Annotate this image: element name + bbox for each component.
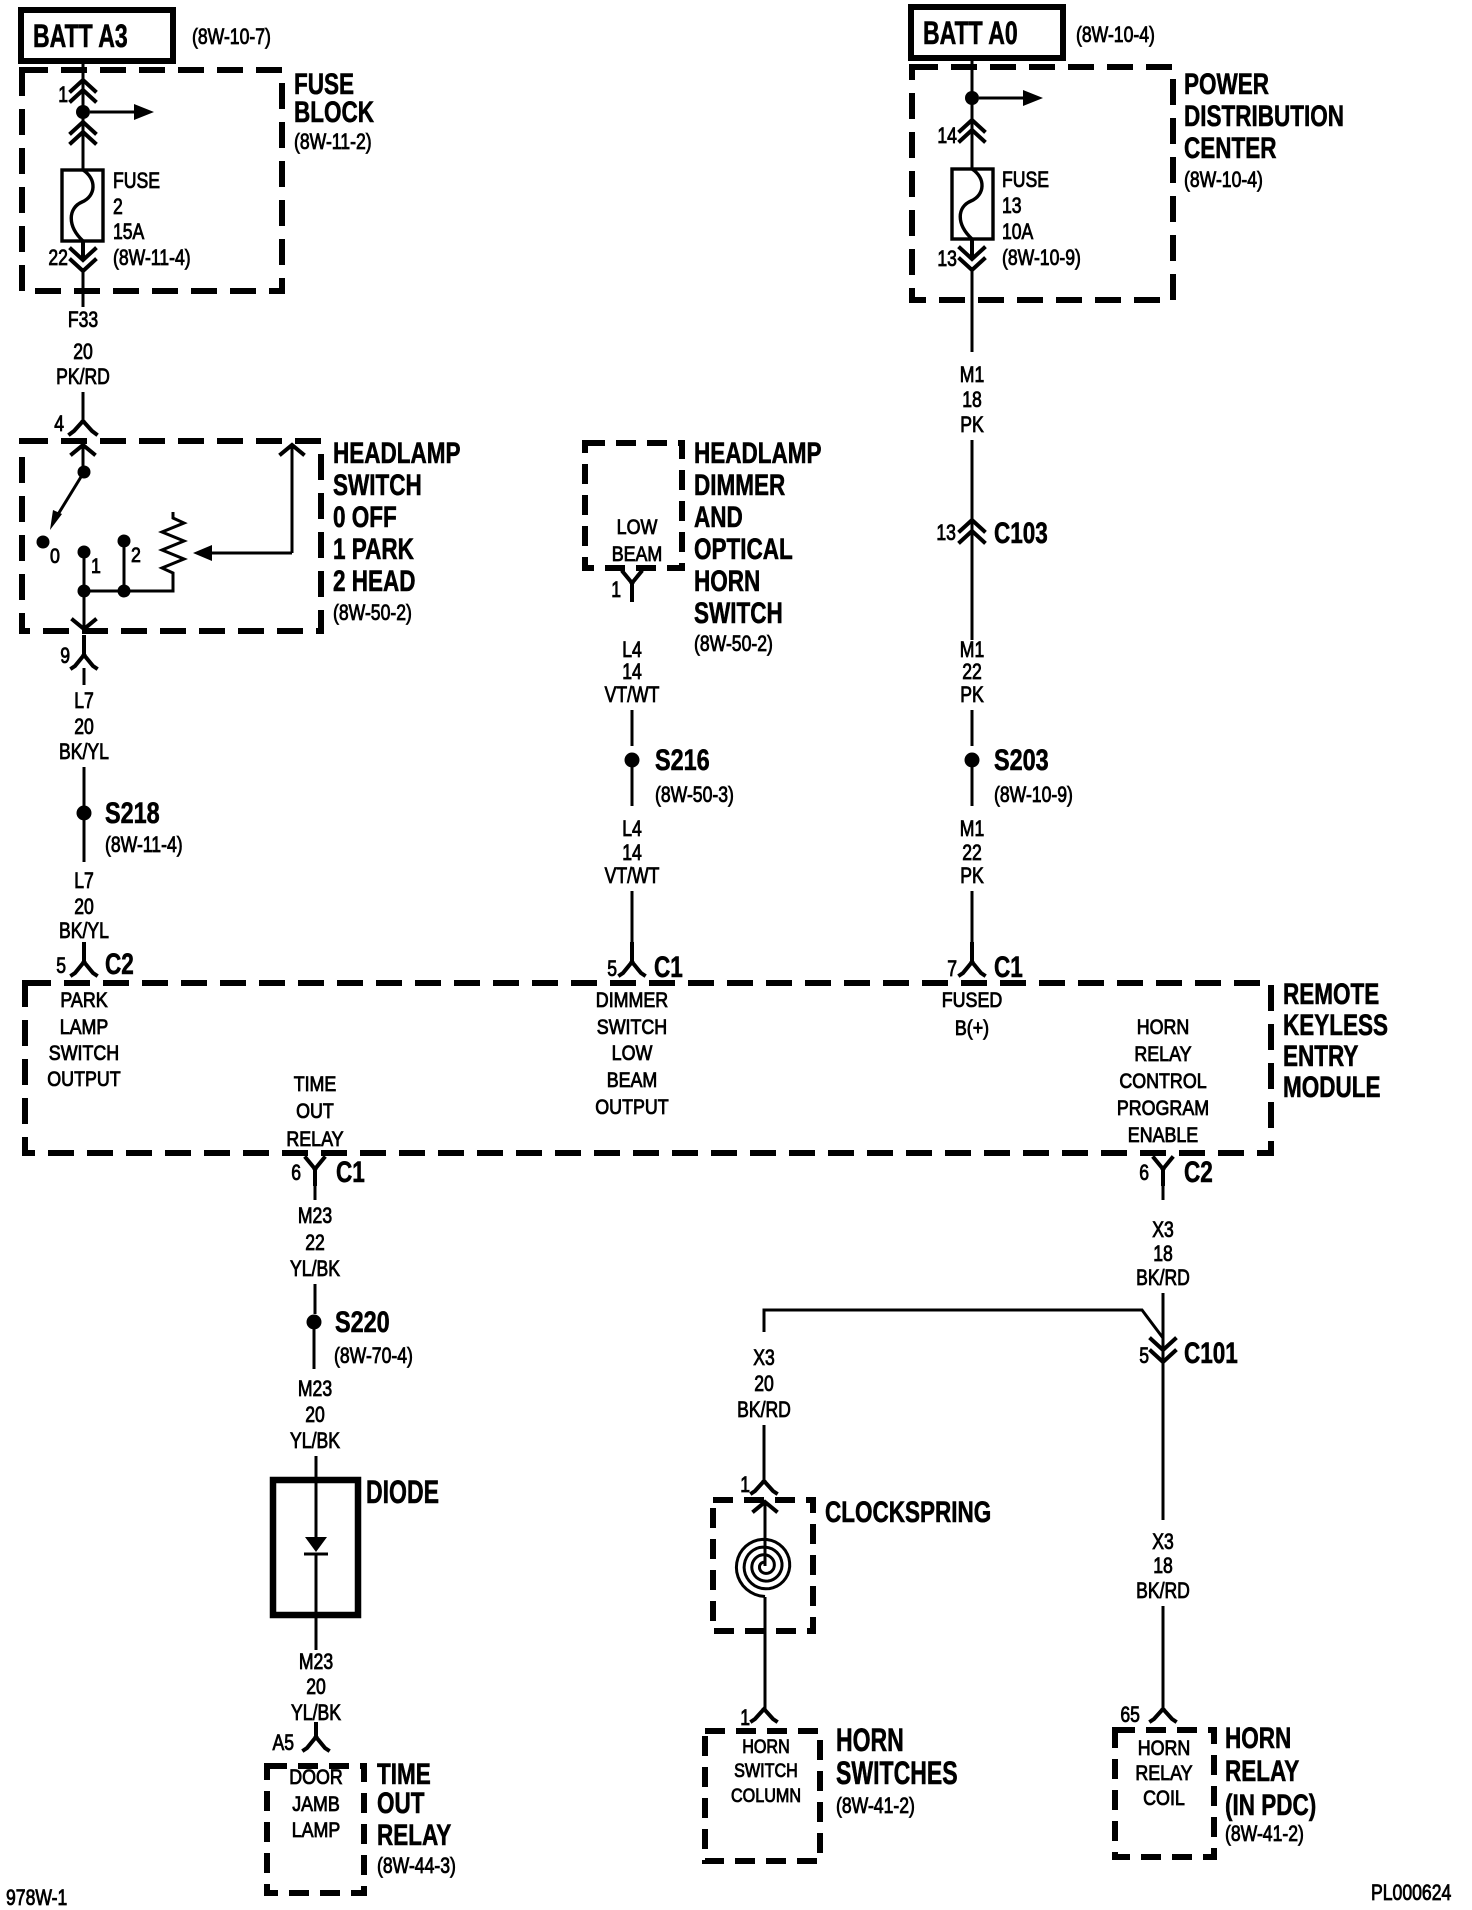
svg-text:(8W-10-4): (8W-10-4) — [1184, 167, 1263, 192]
svg-text:DIMMER: DIMMER — [694, 469, 785, 502]
svg-text:7: 7 — [947, 956, 957, 981]
svg-text:HORN: HORN — [694, 565, 760, 598]
svg-text:1: 1 — [740, 1472, 750, 1497]
svg-text:(8W-50-3): (8W-50-3) — [655, 782, 734, 807]
wire — [82, 392, 85, 421]
fuse F2 element — [62, 170, 103, 241]
power distribution center box — [912, 67, 1173, 300]
svg-text:9: 9 — [60, 643, 70, 668]
svg-text:B(+): B(+) — [955, 1017, 989, 1040]
svg-text:(8W-50-2): (8W-50-2) — [333, 600, 412, 625]
switch common node — [78, 466, 91, 479]
svg-text:PK: PK — [960, 863, 984, 888]
wire fuse block to headlamp switch — [82, 268, 85, 307]
connector entry chevron — [72, 445, 94, 454]
svg-text:OUT: OUT — [377, 1787, 425, 1820]
fuse block FUSE BLOCK — [22, 70, 282, 291]
svg-text:CLOCKSPRING: CLOCKSPRING — [825, 1496, 991, 1529]
svg-text:COLUMN: COLUMN — [731, 1786, 801, 1807]
low beam box — [585, 443, 682, 568]
svg-text:C1: C1 — [654, 951, 683, 984]
svg-text:M1: M1 — [960, 816, 985, 841]
svg-text:OPTICAL: OPTICAL — [694, 533, 793, 566]
contact 0 — [37, 536, 50, 549]
svg-text:BK/YL: BK/YL — [59, 918, 109, 943]
svg-text:6: 6 — [291, 1160, 301, 1185]
svg-text:(8W-11-2): (8W-11-2) — [294, 129, 372, 154]
svg-text:22: 22 — [48, 245, 68, 270]
svg-text:TIME: TIME — [294, 1073, 337, 1096]
contact 2 — [118, 535, 131, 548]
svg-text:SWITCH: SWITCH — [734, 1761, 798, 1782]
node junction with arrow — [965, 91, 979, 105]
svg-text:(8W-10-9): (8W-10-9) — [994, 782, 1073, 807]
svg-text:0: 0 — [50, 545, 60, 568]
svg-text:SWITCH: SWITCH — [597, 1016, 667, 1039]
svg-text:18: 18 — [1153, 1553, 1173, 1578]
svg-text:BEAM: BEAM — [607, 1069, 658, 1092]
svg-text:15A: 15A — [113, 219, 145, 244]
svg-text:CENTER: CENTER — [1184, 132, 1277, 165]
svg-text:HORN: HORN — [836, 1722, 904, 1758]
node junction with arrow — [76, 105, 90, 119]
svg-text:BK/RD: BK/RD — [1136, 1265, 1190, 1290]
clockspring coil spiral — [736, 1539, 789, 1596]
headlamp switch box — [22, 441, 321, 631]
svg-text:LOW: LOW — [617, 516, 658, 539]
rheostat resistor — [162, 512, 184, 581]
diode D1 — [273, 1480, 358, 1615]
svg-text:1: 1 — [58, 82, 68, 107]
svg-text:M23: M23 — [298, 1376, 332, 1401]
svg-text:YL/BK: YL/BK — [290, 1428, 340, 1453]
svg-text:1: 1 — [740, 1705, 750, 1730]
svg-text:L4: L4 — [622, 816, 642, 841]
svg-text:KEYLESS: KEYLESS — [1283, 1009, 1388, 1042]
svg-text:X3: X3 — [1152, 1529, 1174, 1554]
svg-text:5: 5 — [1139, 1343, 1149, 1368]
fuse 13 element — [952, 169, 993, 239]
svg-text:ENABLE: ENABLE — [1128, 1124, 1198, 1147]
svg-text:SWITCH: SWITCH — [333, 469, 422, 502]
dimmer wiper arrow — [212, 552, 292, 555]
svg-text:5: 5 — [56, 953, 66, 978]
svg-text:M1: M1 — [960, 362, 985, 387]
svg-text:C1: C1 — [994, 951, 1023, 984]
svg-text:L7: L7 — [74, 868, 94, 893]
branch wire to clockspring — [764, 1310, 1163, 1338]
svg-text:C103: C103 — [994, 517, 1048, 550]
svg-text:SWITCH: SWITCH — [694, 597, 783, 630]
svg-text:RELAY: RELAY — [1225, 1755, 1299, 1788]
svg-text:VT/WT: VT/WT — [605, 682, 660, 707]
battery feed BATT A3 — [21, 10, 173, 61]
svg-text:YL/BK: YL/BK — [291, 1700, 341, 1725]
svg-text:DISTRIBUTION: DISTRIBUTION — [1184, 100, 1344, 133]
svg-text:DOOR: DOOR — [289, 1766, 343, 1789]
svg-text:X3: X3 — [753, 1345, 775, 1370]
svg-text:(8W-10-9): (8W-10-9) — [1002, 245, 1081, 270]
svg-text:20: 20 — [74, 894, 94, 919]
splice S220 — [307, 1315, 322, 1330]
svg-text:DIMMER: DIMMER — [596, 989, 668, 1012]
svg-text:COIL: COIL — [1143, 1787, 1185, 1810]
svg-text:1: 1 — [611, 577, 621, 602]
svg-text:L7: L7 — [74, 688, 94, 713]
svg-text:BATT A3: BATT A3 — [33, 18, 128, 54]
svg-text:PK/RD: PK/RD — [56, 364, 110, 389]
svg-text:BLOCK: BLOCK — [294, 96, 374, 129]
svg-text:4: 4 — [54, 411, 64, 436]
wire BATT A0 down — [971, 58, 974, 169]
svg-text:(8W-70-4): (8W-70-4) — [334, 1343, 413, 1368]
svg-text:BK/RD: BK/RD — [737, 1397, 791, 1422]
svg-text:13: 13 — [937, 246, 957, 271]
svg-text:(8W-44-3): (8W-44-3) — [377, 1853, 456, 1878]
horn relay coil box — [1115, 1730, 1214, 1857]
svg-text:978W-1: 978W-1 — [6, 1885, 67, 1910]
svg-text:M23: M23 — [298, 1203, 332, 1228]
splice S218 — [77, 806, 92, 821]
svg-text:S218: S218 — [105, 797, 160, 830]
wire BATT A3 to fuse — [82, 61, 85, 170]
svg-text:(8W-11-4): (8W-11-4) — [105, 832, 183, 857]
svg-text:2: 2 — [131, 544, 141, 567]
svg-text:DIODE: DIODE — [366, 1474, 439, 1510]
svg-text:18: 18 — [1153, 1241, 1173, 1266]
svg-text:HEADLAMP: HEADLAMP — [694, 437, 822, 470]
svg-text:20: 20 — [305, 1402, 325, 1427]
svg-text:22: 22 — [962, 840, 982, 865]
svg-text:HEADLAMP: HEADLAMP — [333, 437, 461, 470]
svg-text:18: 18 — [962, 387, 982, 412]
svg-text:POWER: POWER — [1184, 68, 1269, 101]
svg-text:OUT: OUT — [296, 1100, 334, 1123]
svg-text:S216: S216 — [655, 744, 710, 777]
svg-text:(8W-50-2): (8W-50-2) — [694, 631, 773, 656]
svg-text:RELAY: RELAY — [286, 1128, 343, 1151]
svg-text:6: 6 — [1139, 1160, 1149, 1185]
svg-text:A5: A5 — [273, 1730, 295, 1755]
svg-text:(8W-11-4): (8W-11-4) — [113, 245, 191, 270]
splice S216 — [625, 753, 640, 768]
svg-text:5: 5 — [607, 956, 617, 981]
svg-text:S220: S220 — [335, 1306, 390, 1339]
svg-text:BK/YL: BK/YL — [59, 739, 109, 764]
chevron top right — [281, 445, 303, 454]
wire to C103 — [971, 267, 974, 352]
connector chevrons pin 22 — [71, 249, 95, 271]
svg-text:HORN: HORN — [1225, 1722, 1291, 1755]
svg-text:SWITCH: SWITCH — [49, 1042, 119, 1065]
svg-text:(8W-10-4): (8W-10-4) — [1076, 22, 1155, 47]
svg-text:(8W-10-7): (8W-10-7) — [192, 24, 271, 49]
svg-text:FUSE: FUSE — [113, 168, 160, 193]
svg-text:C101: C101 — [1184, 1337, 1238, 1370]
svg-text:ENTRY: ENTRY — [1283, 1040, 1358, 1073]
svg-text:S203: S203 — [994, 744, 1049, 777]
svg-text:REMOTE: REMOTE — [1283, 978, 1379, 1011]
svg-text:PL000624: PL000624 — [1371, 1880, 1451, 1905]
svg-text:0 OFF: 0 OFF — [333, 501, 397, 534]
svg-text:PARK: PARK — [60, 989, 107, 1012]
svg-text:22: 22 — [962, 659, 982, 684]
connector chevrons pin 1 — [71, 80, 95, 101]
svg-text:JAMB: JAMB — [292, 1793, 340, 1816]
svg-text:FUSE: FUSE — [1002, 167, 1049, 192]
svg-text:CONTROL: CONTROL — [1119, 1070, 1206, 1093]
fuse clip chevrons — [71, 122, 95, 143]
svg-text:2: 2 — [113, 194, 123, 219]
svg-text:X3: X3 — [1152, 1217, 1174, 1242]
svg-text:65: 65 — [1120, 1702, 1140, 1727]
switch wiper arm — [57, 472, 84, 516]
door jamb lamp box (time out relay) — [267, 1766, 364, 1893]
contact 1 — [78, 546, 91, 559]
horn switch column box — [705, 1731, 820, 1861]
wire contacts to bus — [84, 541, 173, 591]
svg-text:PROGRAM: PROGRAM — [1117, 1097, 1209, 1120]
svg-text:SWITCHES: SWITCHES — [836, 1755, 958, 1791]
svg-text:14: 14 — [622, 840, 642, 865]
svg-text:13: 13 — [936, 520, 956, 545]
svg-text:MODULE: MODULE — [1283, 1071, 1381, 1104]
svg-text:HORN: HORN — [1138, 1737, 1191, 1760]
svg-text:YL/BK: YL/BK — [290, 1256, 340, 1281]
svg-text:BEAM: BEAM — [612, 543, 663, 566]
svg-text:20: 20 — [754, 1371, 774, 1396]
svg-text:BK/RD: BK/RD — [1136, 1578, 1190, 1603]
svg-text:20: 20 — [306, 1674, 326, 1699]
svg-text:1 PARK: 1 PARK — [333, 533, 414, 566]
wire through C101 — [1162, 1293, 1165, 1520]
svg-text:F33: F33 — [68, 307, 98, 332]
svg-text:PK: PK — [960, 412, 984, 437]
svg-text:RELAY: RELAY — [377, 1819, 451, 1852]
svg-text:C2: C2 — [105, 948, 134, 981]
battery feed BATT A0 — [911, 7, 1063, 58]
clockspring box — [713, 1500, 813, 1631]
svg-text:HORN: HORN — [1137, 1016, 1190, 1039]
svg-text:(IN PDC): (IN PDC) — [1225, 1789, 1316, 1822]
svg-text:AND: AND — [694, 501, 743, 534]
svg-text:FUSED: FUSED — [942, 989, 1003, 1012]
svg-text:10A: 10A — [1002, 219, 1034, 244]
svg-text:14: 14 — [622, 659, 642, 684]
wire into diode — [315, 1456, 318, 1537]
svg-text:M23: M23 — [299, 1649, 333, 1674]
svg-text:VT/WT: VT/WT — [605, 863, 660, 888]
switch output wire — [83, 591, 86, 628]
svg-text:OUTPUT: OUTPUT — [47, 1068, 121, 1091]
svg-text:LOW: LOW — [612, 1042, 653, 1065]
svg-text:C2: C2 — [1184, 1156, 1213, 1189]
svg-text:C1: C1 — [336, 1156, 365, 1189]
svg-text:20: 20 — [74, 714, 94, 739]
remote keyless entry module box — [25, 983, 1271, 1153]
splice S203 — [965, 753, 980, 768]
svg-text:2 HEAD: 2 HEAD — [333, 565, 416, 598]
svg-text:14: 14 — [937, 123, 957, 148]
svg-text:(8W-41-2): (8W-41-2) — [836, 1793, 915, 1818]
svg-text:BATT A0: BATT A0 — [923, 15, 1018, 51]
svg-text:13: 13 — [1002, 193, 1022, 218]
svg-text:PK: PK — [960, 682, 984, 707]
svg-text:RELAY: RELAY — [1134, 1043, 1191, 1066]
svg-text:LAMP: LAMP — [60, 1016, 109, 1039]
svg-text:LAMP: LAMP — [292, 1819, 341, 1842]
svg-text:(8W-41-2): (8W-41-2) — [1225, 1821, 1304, 1846]
svg-text:22: 22 — [305, 1230, 325, 1255]
svg-text:20: 20 — [73, 339, 93, 364]
svg-text:OUTPUT: OUTPUT — [595, 1096, 669, 1119]
svg-text:1: 1 — [91, 555, 101, 578]
svg-text:RELAY: RELAY — [1135, 1762, 1192, 1785]
svg-text:HORN: HORN — [742, 1737, 790, 1758]
